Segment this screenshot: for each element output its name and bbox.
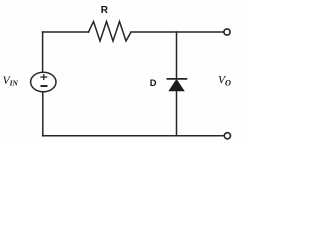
- voltage source VIN circle: [31, 72, 56, 92]
- wire middle branch lower: [176, 91, 178, 136]
- resistor R: [89, 22, 132, 42]
- plus sign of source: [40, 74, 47, 80]
- diode D triangle: [169, 80, 184, 91]
- diode D cathode bar: [167, 78, 188, 80]
- svg-text:D: D: [150, 78, 157, 88]
- minus sign of source: [41, 85, 48, 87]
- wire resistor to top-right terminal: [131, 31, 224, 33]
- wire left vertical upper: [42, 32, 44, 72]
- terminal bottom-right: [224, 133, 230, 139]
- terminal top-right: [224, 29, 230, 35]
- wire top-left from corner to resistor: [43, 31, 89, 33]
- svg-text:VO: VO: [218, 75, 231, 88]
- svg-text:VIN: VIN: [3, 75, 19, 88]
- wire bottom from source to terminal: [43, 135, 225, 137]
- wire middle branch upper (diode anode feed): [176, 32, 178, 79]
- svg-text:R: R: [101, 5, 109, 16]
- wire left vertical lower: [42, 92, 44, 136]
